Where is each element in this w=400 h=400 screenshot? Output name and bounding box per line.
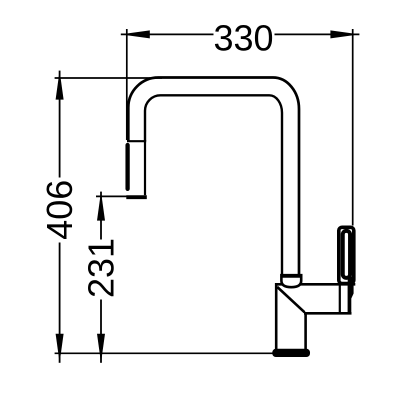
dimension line 330 right segment [275, 33, 360, 35]
spout end cap (occludes body top line) [281, 275, 301, 287]
body bottom edge [304, 312, 352, 315]
arrowhead 406 bottom [56, 334, 64, 363]
spout inner contour [145, 95, 282, 276]
spray head joint line [127, 140, 146, 142]
body left edge [275, 283, 278, 350]
handle stem left line [339, 285, 341, 312]
svg-text:330: 330 [213, 17, 273, 58]
extension line bottom shared for dims 406 and 231 [55, 352, 274, 354]
spout outer contour [128, 78, 299, 277]
extension line left of dim 330 [126, 29, 128, 140]
dimension line 406 lower segment [59, 243, 61, 363]
arrowhead 231 top [97, 192, 105, 221]
arrowhead 330 left [121, 30, 150, 38]
dimension line 406 upper segment [59, 71, 61, 178]
body diagonal [277, 287, 304, 312]
body top line [275, 283, 355, 286]
dimension line 231 upper segment [100, 192, 102, 240]
svg-text:231: 231 [81, 238, 122, 298]
svg-text:406: 406 [39, 180, 80, 240]
body column right edge [304, 312, 307, 350]
spray head bottom cap [126, 195, 147, 199]
handle inner capsule [343, 231, 350, 278]
arrowhead 231 bottom [97, 334, 105, 363]
dimension line 231 lower segment [100, 300, 102, 363]
spout end joint line [281, 276, 301, 278]
spray head left outline (thick grip) [125, 145, 129, 189]
base flange [272, 349, 310, 357]
handle lower-right fill patch [348, 277, 353, 286]
dimension line 330 left segment [121, 33, 214, 35]
handle stem filled block [348, 283, 354, 312]
arrowhead 406 top [56, 71, 64, 100]
extension line top for dim 406 [55, 77, 162, 79]
arrowhead 330 right [330, 30, 359, 38]
extension line right of dim 330 [352, 29, 354, 226]
extension line middle for dim 231 [96, 195, 128, 197]
spray head right outline [144, 141, 146, 195]
handle outer outline [339, 227, 354, 283]
